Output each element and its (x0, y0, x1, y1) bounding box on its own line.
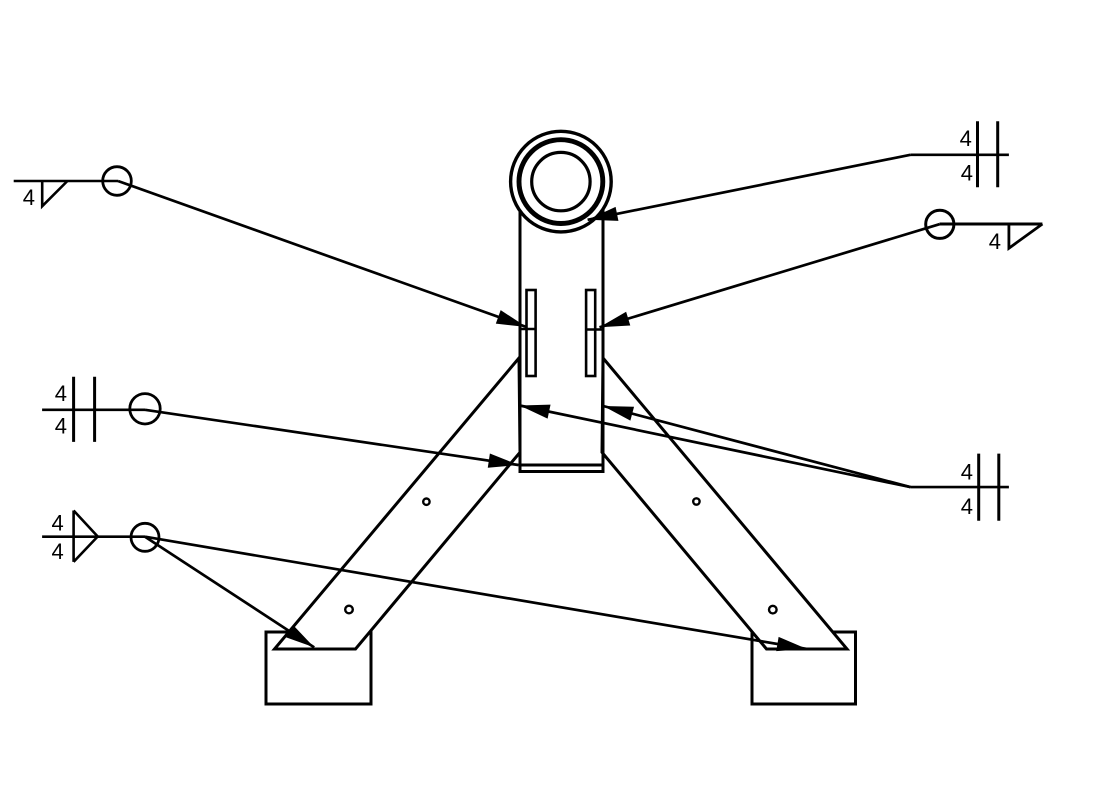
column bottom plate (520, 465, 603, 472)
svg-text:4: 4 (961, 494, 973, 519)
weld symbol S5 leader (600, 224, 940, 327)
weld symbol S6 groove bars (979, 454, 999, 521)
svg-text:4: 4 (961, 459, 973, 484)
weld symbol S6 leader to right column arrow (603, 406, 910, 487)
svg-text:4: 4 (52, 539, 64, 564)
pipe boss inner circle (532, 152, 590, 210)
svg-text:4: 4 (55, 414, 67, 439)
right slot (586, 290, 595, 376)
weld symbol S1 reference line (14, 180, 118, 183)
svg-text:4: 4 (52, 510, 64, 535)
weld symbol S1 fillet triangle (42, 181, 67, 206)
pipe boss middle circle (519, 140, 603, 224)
left leg (275, 358, 521, 649)
left base plate (266, 632, 371, 704)
weld symbol S2 groove bars (74, 377, 95, 442)
right base plate (752, 632, 856, 704)
weld symbol S5 reference line (940, 223, 1043, 226)
right leg lower hole (769, 606, 777, 614)
right leg upper hole (693, 498, 699, 504)
weld symbol S5 all-around circle (926, 210, 954, 238)
weld symbol S3 double fillet triangles (74, 511, 98, 562)
svg-text:4: 4 (960, 126, 972, 151)
weld symbol S6 leader to left column arrow (520, 406, 911, 488)
weld symbol S4 leader (588, 155, 911, 220)
weld symbol S2 leader (145, 410, 519, 465)
left slot (527, 290, 536, 376)
weld symbol S4 reference line (910, 154, 1009, 157)
left leg lower hole (345, 606, 353, 614)
weld symbol S5 fillet triangle (1009, 224, 1043, 248)
weld symbol S1 all-around circle (103, 167, 132, 196)
svg-text:4: 4 (961, 161, 973, 186)
weld symbol S2 all-around circle (130, 394, 160, 424)
weld symbol S3 all-around circle (131, 523, 159, 551)
weld symbol S3 reference line (42, 535, 145, 538)
right leg (602, 358, 847, 649)
svg-text:4: 4 (989, 229, 1001, 254)
weld symbol S1 leader (118, 181, 527, 327)
weld symbol S1 tick at left slot (519, 328, 534, 331)
weld symbol S5 tick at right slot (586, 328, 603, 331)
weld symbol S4 groove bars (978, 121, 998, 187)
weld symbol S2 reference line (42, 408, 145, 411)
weld symbol S3 leader to right plate (145, 537, 807, 649)
left leg upper hole (423, 499, 429, 505)
svg-text:4: 4 (23, 185, 35, 210)
weld symbol S3 leader to left plate (145, 537, 314, 648)
column (520, 175, 603, 465)
pipe boss outer circle (511, 131, 612, 232)
weld symbol S6 reference line (910, 486, 1009, 489)
svg-text:4: 4 (55, 381, 67, 406)
